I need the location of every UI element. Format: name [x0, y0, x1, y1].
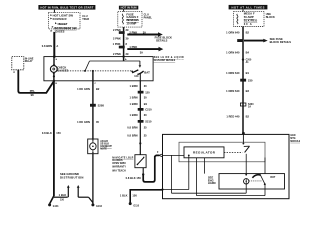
svg-text:1 BRN: 1 BRN	[130, 96, 138, 100]
svg-text:HOT IN RUN: HOT IN RUN	[121, 6, 137, 10]
wire DK GRN from cluster to filter	[92, 71, 94, 139]
svg-text:1 BRN: 1 BRN	[130, 84, 138, 88]
wire stub from right header to fuse block	[242, 9, 244, 11]
node bulb to ground splice	[53, 80, 55, 82]
svg-text:0.8 BRN: 0.8 BRN	[127, 126, 137, 130]
svg-text:230: 230	[248, 79, 253, 83]
in-line relay box (dashed)	[12, 57, 24, 74]
svg-text:IND BULBS: IND BULBS	[126, 18, 139, 22]
svg-text:1 BRN: 1 BRN	[130, 113, 138, 117]
wire regulator to F terminal	[163, 154, 185, 156]
node splice on brown wire	[139, 142, 141, 144]
svg-text:2 PNK: 2 PNK	[113, 28, 121, 32]
svg-text:BLK/RED: BLK/RED	[244, 19, 258, 23]
svg-text:2 PNK: 2 PNK	[113, 36, 121, 40]
svg-text:BLOCK DETAILS: BLOCK DETAILS	[270, 40, 292, 44]
svg-text:0.8 BRN: 0.8 BRN	[127, 134, 137, 138]
svg-text:W/A TEACH: W/A TEACH	[112, 170, 126, 173]
svg-text:AD-HR: AD-HR	[100, 140, 108, 143]
svg-text:1 ORN 640: 1 ORN 640	[226, 89, 240, 93]
svg-text:BLOCK: BLOCK	[266, 16, 275, 19]
cluster bulb-test switch	[131, 70, 150, 81]
feed drop with arrow inside cluster	[139, 61, 142, 68]
svg-text:DISTRIBUTION: DISTRIBUTION	[60, 175, 84, 179]
diagnostic test switch box	[135, 155, 146, 168]
svg-text:2A: 2A	[248, 105, 251, 108]
svg-text:PPL: PPL	[30, 89, 36, 93]
wire ORN from right fuse to generator	[242, 27, 244, 135]
svg-text:DETAILS: DETAILS	[156, 39, 167, 43]
svg-text:HOT IN RUN, BULB TEST OR START: HOT IN RUN, BULB TEST OR START	[40, 6, 93, 10]
svg-text:S210: S210	[145, 120, 152, 124]
svg-text:2 PNK: 2 PNK	[129, 31, 137, 35]
dashed internal cluster wire	[57, 70, 131, 72]
rotor brush symbol	[252, 175, 276, 185]
wire from test switch to generator F terminal	[142, 152, 162, 182]
terminal letters on cluster box	[55, 58, 127, 85]
svg-text:39: 39	[143, 31, 146, 35]
svg-text:A: A	[13, 71, 15, 74]
regulator inner boundary box	[179, 142, 265, 162]
connector S210	[138, 120, 152, 124]
svg-text:NAVIGATE LBLR: NAVIGATE LBLR	[112, 157, 133, 160]
ground G110	[129, 202, 140, 207]
svg-text:0.8 BRN: 0.8 BRN	[42, 44, 52, 48]
connector S208	[90, 104, 104, 108]
svg-text:30: 30	[144, 96, 147, 100]
svg-text:1 DK GRN: 1 DK GRN	[77, 87, 90, 91]
svg-text:WARRANTY: WARRANTY	[112, 166, 126, 169]
svg-text:39: 39	[126, 52, 129, 56]
svg-text:1 BLK: 1 BLK	[120, 193, 128, 197]
label test switch	[112, 157, 133, 173]
svg-text:1 PNK: 1 PNK	[113, 42, 121, 46]
wire drop from regulator pin 2	[196, 158, 198, 196]
svg-text:30: 30	[144, 113, 147, 117]
svg-text:RELAY: RELAY	[25, 60, 33, 63]
svg-text:1 ORN 640: 1 ORN 640	[226, 31, 240, 35]
svg-text:B2: B2	[96, 87, 100, 91]
svg-text:G110: G110	[133, 205, 139, 207]
wire stub from left header to fuse block	[53, 10, 55, 13]
svg-text:B1: B1	[144, 102, 148, 106]
svg-text:BAT: BAT	[144, 70, 150, 74]
svg-text:B3: B3	[246, 89, 250, 93]
svg-text:B2: B2	[246, 31, 250, 35]
up arrow stub left	[67, 185, 70, 197]
svg-text:ROT: ROT	[270, 177, 276, 179]
internal stator loop wire	[172, 155, 247, 193]
wire stub from middle header to fuse block	[123, 10, 125, 12]
arrow to fuse block details (lower)	[127, 45, 163, 55]
node dk grn tap on dashed wire	[92, 70, 94, 72]
ground splice wiring bottom left	[50, 196, 68, 204]
svg-text:39: 39	[126, 36, 129, 40]
svg-text:10 AMP: 10 AMP	[126, 22, 136, 26]
connector on pink wire	[119, 31, 125, 34]
svg-text:INSTRUMENT SW: INSTRUMENT SW	[54, 26, 77, 30]
arrow to fuse block details (right)	[244, 39, 268, 43]
ground G101	[48, 203, 59, 208]
wire switch to rotor	[264, 158, 266, 174]
svg-text:1 BRN: 1 BRN	[130, 102, 138, 106]
svg-text:30 A: 30 A	[244, 22, 252, 26]
svg-text:30: 30	[144, 84, 147, 88]
fuse block detail box (right, dashed)	[234, 12, 265, 27]
internal switch of regulator	[243, 143, 250, 153]
svg-text:16C: 16C	[134, 76, 139, 78]
label see eng harn (small block)	[208, 176, 216, 186]
ground G102	[91, 203, 102, 208]
svg-text:HOT AT ALL TIMES: HOT AT ALL TIMES	[232, 5, 265, 9]
connector C230	[240, 79, 253, 83]
svg-text:REGULATOR: REGULATOR	[193, 151, 216, 155]
wire drop from regulator pin 1	[188, 155, 190, 189]
charge indicator bulb	[50, 57, 68, 81]
generator box	[163, 134, 290, 198]
svg-text:25: 25	[144, 134, 147, 138]
up arrow stub right	[77, 185, 93, 203]
svg-text:50 AMP: 50 AMP	[244, 15, 254, 19]
header bar HOT AT ALL TIMES (right)	[229, 5, 268, 9]
wire PNK from middle fuse	[123, 27, 125, 61]
svg-text:TRLR: TRLR	[82, 18, 89, 21]
svg-text:C210: C210	[145, 108, 152, 112]
svg-text:NOTE: NOTE	[100, 149, 107, 151]
svg-text:MODULE: MODULE	[290, 141, 300, 143]
wire ground from generator case	[130, 190, 162, 203]
svg-text:DIMMER: DIMMER	[53, 17, 67, 21]
label see ground distribution	[60, 172, 84, 180]
svg-text:1 RED 440: 1 RED 440	[226, 115, 240, 119]
svg-text:120: 120	[145, 91, 150, 95]
internal field return wire	[197, 185, 266, 196]
header bar HOT IN RUN (middle)	[119, 6, 138, 10]
fuse block detail box (left, dashed)	[48, 13, 80, 30]
svg-text:G102: G102	[96, 206, 102, 208]
svg-text:150: 150	[56, 131, 61, 135]
wire BLK bulb down to ground	[53, 81, 55, 196]
in-line diode filter component	[88, 139, 98, 154]
node feed tap on dashed wire	[84, 70, 86, 72]
svg-text:OPEN W/BU: OPEN W/BU	[112, 163, 126, 165]
svg-text:1 ORN 640: 1 ORN 640	[226, 51, 240, 55]
svg-text:35: 35	[96, 120, 99, 124]
svg-text:S208: S208	[98, 104, 105, 108]
node C200	[242, 58, 252, 64]
internal ground wire to case	[161, 188, 188, 190]
svg-text:A: A	[56, 44, 58, 48]
label generator module (top right)	[290, 135, 301, 143]
svg-text:B1: B1	[246, 71, 250, 75]
wire BRN from cluster switch down	[139, 81, 141, 155]
svg-text:IN-LINE: IN-LINE	[25, 58, 34, 60]
node BAT terminal on generator	[242, 132, 245, 135]
wire BLK filter to ground	[92, 154, 94, 204]
svg-text:25: 25	[144, 126, 147, 130]
svg-text:98: 98	[31, 93, 34, 97]
wire PPL purple relay feed	[18, 70, 54, 93]
field winding symbol	[244, 174, 262, 193]
svg-text:150: 150	[132, 193, 137, 197]
svg-text:G101: G101	[53, 206, 59, 208]
node on F wire	[188, 155, 190, 157]
svg-text:MEGA F: MEGA F	[244, 12, 255, 16]
svg-text:1 BLK: 1 BLK	[59, 193, 67, 197]
svg-text:CLUS DIST DETAILS: CLUS DIST DETAILS	[154, 59, 176, 62]
header bar HOT WITH LIGHT SWITCH (left)	[38, 5, 95, 10]
svg-text:HARN: HARN	[208, 181, 216, 185]
svg-text:1 PNK: 1 PNK	[129, 45, 137, 49]
svg-text:PANEL: PANEL	[144, 16, 153, 19]
svg-text:GEN: GEN	[290, 135, 295, 137]
svg-text:B2: B2	[246, 115, 250, 119]
fuse block detail box (middle, dashed)	[118, 12, 142, 28]
connector C100	[138, 91, 150, 95]
gages fuse exit terminal	[51, 30, 65, 34]
connector C210	[138, 108, 152, 112]
svg-text:2 PNK: 2 PNK	[113, 52, 121, 56]
wire drop from regulator pin 3	[203, 158, 205, 174]
svg-text:B4: B4	[246, 51, 250, 55]
svg-text:GAUGE KIT: GAUGE KIT	[100, 145, 112, 148]
svg-text:0.8 BLK 150: 0.8 BLK 150	[126, 176, 142, 180]
wire 0.8 BRN from gages fuse to cluster	[53, 32, 55, 57]
dashed control line regulator to switch	[224, 151, 242, 153]
wire feed diagonal and internal feed line	[85, 61, 90, 71]
wire switch to field	[245, 154, 247, 175]
svg-text:1 DK GRN: 1 DK GRN	[77, 120, 90, 124]
instrument cluster box	[44, 57, 153, 81]
svg-text:39: 39	[140, 51, 143, 55]
svg-text:0.8 BLK: 0.8 BLK	[42, 131, 52, 135]
arrow to fuse block details (upper)	[127, 31, 163, 37]
svg-text:150: 150	[60, 200, 65, 202]
connector on orange wire	[237, 39, 243, 42]
node splice on cluster top edge	[122, 55, 124, 57]
svg-text:1 ORN 640: 1 ORN 640	[226, 71, 240, 75]
wire from BAT node to internal switch	[242, 134, 244, 143]
field coil box	[219, 174, 285, 189]
connector S230	[240, 103, 254, 108]
svg-text:GAUGES: GAUGES	[112, 159, 123, 162]
connector on pink wire 2	[119, 46, 125, 49]
svg-text:MTG: MTG	[290, 138, 295, 140]
svg-text:SEE LH DR & LIQUID: SEE LH DR & LIQUID	[154, 57, 184, 59]
svg-text:GAGES: GAGES	[55, 31, 65, 34]
regulator box U1	[184, 147, 224, 158]
label diode filter	[100, 140, 112, 151]
